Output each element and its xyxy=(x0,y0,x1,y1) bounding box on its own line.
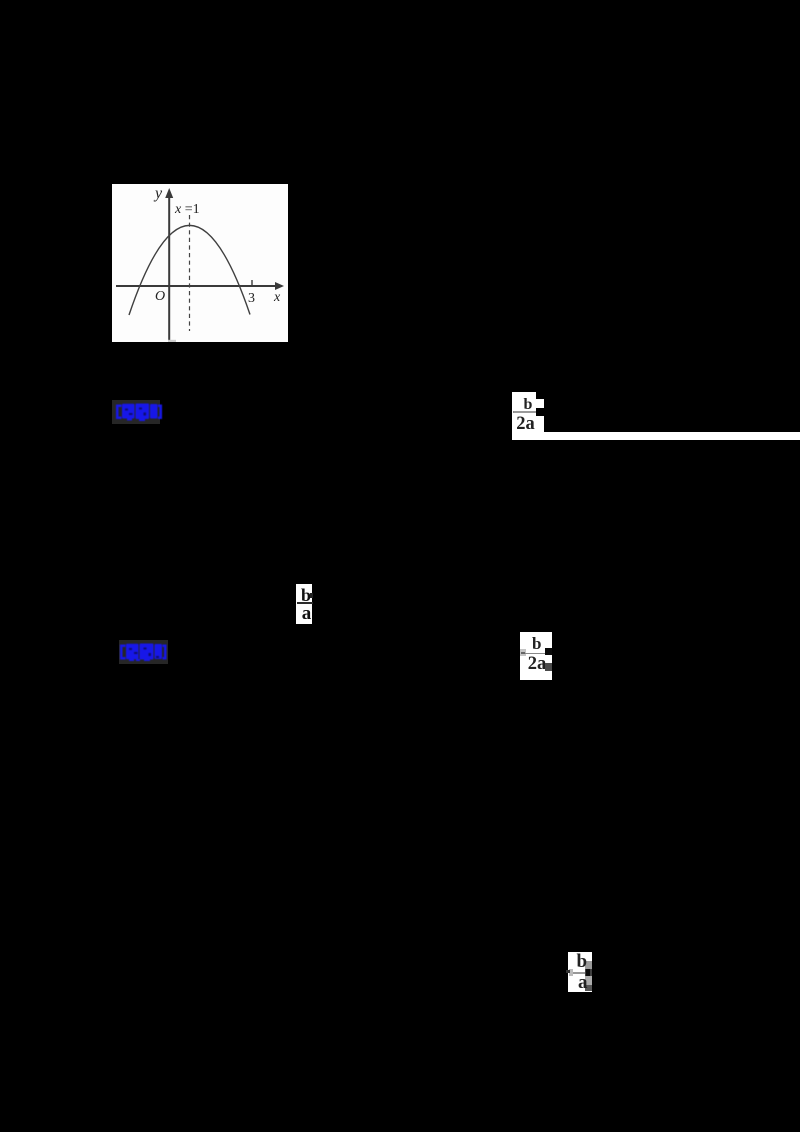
fraction bar 2 xyxy=(297,602,313,604)
svg-text:x: x xyxy=(273,290,281,305)
numerator b 2 xyxy=(301,588,313,603)
dark nub right of b 2 xyxy=(310,593,313,598)
gray col 4 second xyxy=(585,969,592,977)
white nub right of 2a xyxy=(536,416,544,432)
numerator b 1 xyxy=(524,398,536,413)
minus nub 3 xyxy=(520,649,526,656)
minus dash 4 xyxy=(566,970,570,973)
gray col 4 bottom xyxy=(585,985,592,991)
gray col 4 third xyxy=(585,976,592,985)
highlight box 2 xyxy=(119,640,168,664)
equation image 2: b/a xyxy=(296,584,312,624)
denominator a 4 xyxy=(578,976,590,991)
tick at 3 xyxy=(251,280,253,286)
fraction bar 3 xyxy=(525,653,546,655)
equation image 4: -b/a xyxy=(568,952,592,992)
numerator b 4 xyxy=(577,955,589,970)
y-axis xyxy=(168,195,170,340)
gray col 4 top xyxy=(585,961,592,969)
x-axis arrowhead xyxy=(275,282,284,290)
figure: parabola graph image xyxy=(112,184,288,342)
fraction bar 1 xyxy=(514,411,536,413)
denominator 2a 3 xyxy=(528,657,552,673)
minus dash 1 xyxy=(513,411,517,413)
dark block right 3b xyxy=(545,663,552,671)
minus dash 3 xyxy=(521,652,525,654)
white nub right of b xyxy=(536,399,544,408)
y-axis arrowhead xyxy=(165,188,173,198)
numerator b 3 xyxy=(532,637,544,652)
black notch 4 xyxy=(586,969,590,976)
fraction bar 4 xyxy=(573,972,586,974)
svg-text:3: 3 xyxy=(248,291,255,306)
svg-text:O: O xyxy=(155,289,165,304)
svg-text:x =1: x =1 xyxy=(174,202,200,217)
equation image 1: -b/2a xyxy=(512,392,536,440)
x-axis xyxy=(116,285,277,287)
dashed symmetry axis xyxy=(189,215,191,331)
minus nub 4 xyxy=(569,969,574,976)
parabola curve xyxy=(129,225,250,315)
denominator a 2 xyxy=(302,607,314,622)
white strip to right edge xyxy=(512,432,800,439)
dark block right 3a xyxy=(545,648,552,655)
blue label 2 xyxy=(119,643,169,661)
gray nub at bottom of y-axis xyxy=(168,340,176,342)
svg-text:y: y xyxy=(153,185,163,202)
equation image 3: -b/2a xyxy=(520,632,552,680)
blue label 1 xyxy=(115,403,165,421)
highlight box 1 xyxy=(112,400,160,424)
denominator 2a 1 xyxy=(516,417,540,432)
